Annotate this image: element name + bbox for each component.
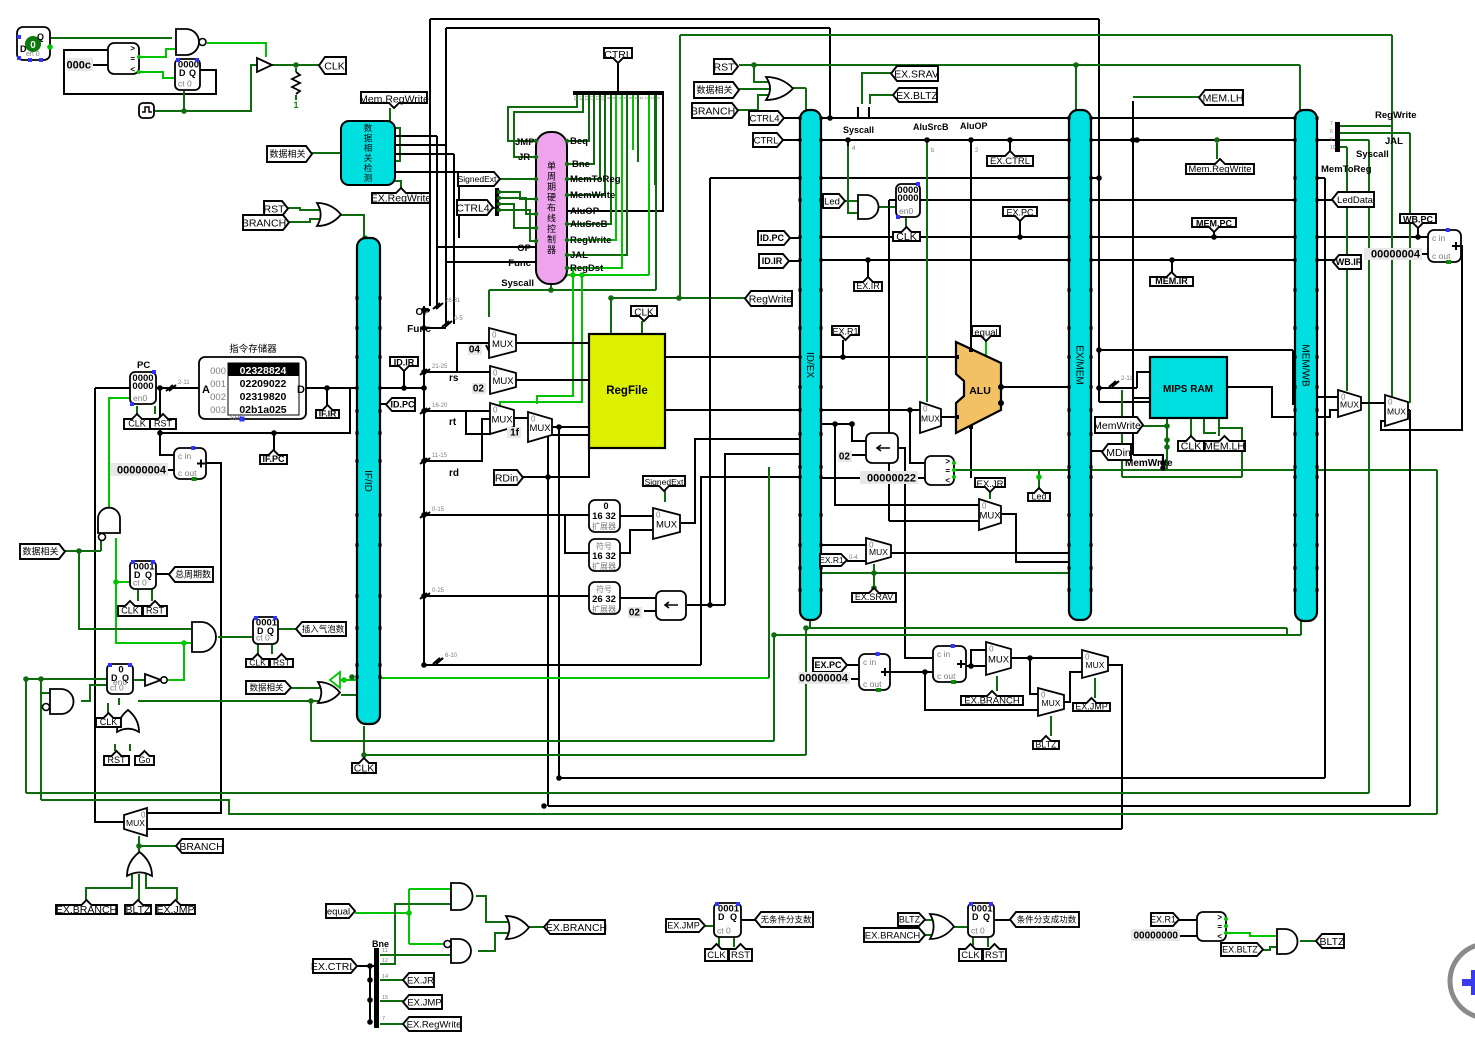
svg-text:c out: c out <box>178 468 197 478</box>
svg-text:RST: RST <box>273 658 290 668</box>
svg-text:相: 相 <box>364 143 373 153</box>
svg-text:CLK: CLK <box>100 717 118 727</box>
svg-text:MUX: MUX <box>492 376 514 387</box>
svg-text:14: 14 <box>382 974 388 980</box>
svg-text:Bne: Bne <box>372 939 389 949</box>
svg-text:WB.IR: WB.IR <box>1336 257 1363 267</box>
svg-text:13: 13 <box>584 95 589 101</box>
svg-text:6: 6 <box>1330 129 1333 135</box>
svg-text:0: 0 <box>989 645 994 654</box>
svg-text:Bne: Bne <box>572 159 590 170</box>
svg-text:ID.PC: ID.PC <box>760 233 785 243</box>
svg-text:MEM.LH: MEM.LH <box>1204 440 1245 452</box>
svg-text:ID.IR: ID.IR <box>762 256 783 266</box>
svg-text:00000004: 00000004 <box>799 673 849 685</box>
svg-text:EX.CTRL: EX.CTRL <box>990 156 1030 167</box>
svg-text:001: 001 <box>210 379 226 390</box>
svg-text:A: A <box>202 384 210 396</box>
svg-text:符号: 符号 <box>596 584 612 594</box>
svg-text:EX.JR: EX.JR <box>977 479 1004 490</box>
svg-text:RegWrite: RegWrite <box>749 293 793 305</box>
svg-text:003: 003 <box>210 405 226 416</box>
svg-text:RST: RST <box>985 950 1004 961</box>
svg-text:Mem.RegWrite: Mem.RegWrite <box>1188 164 1251 175</box>
svg-text:IF/ID: IF/ID <box>362 470 373 492</box>
svg-text:无条件分支数: 无条件分支数 <box>760 915 812 925</box>
svg-text:c in: c in <box>937 649 951 659</box>
svg-text:ct 0: ct 0 <box>178 79 192 89</box>
svg-text:CLK: CLK <box>121 606 139 616</box>
svg-text:02328824: 02328824 <box>240 365 287 377</box>
svg-text:ID/EX: ID/EX <box>804 352 815 378</box>
svg-text:MUX: MUX <box>1086 660 1105 670</box>
svg-text:硬: 硬 <box>547 193 556 203</box>
svg-text:MDin: MDin <box>1106 447 1131 459</box>
svg-text:EX/MEM: EX/MEM <box>1074 345 1085 384</box>
svg-text:16 32: 16 32 <box>592 511 616 522</box>
svg-text:EX.BRANCH: EX.BRANCH <box>56 904 117 916</box>
svg-text:002: 002 <box>210 392 226 403</box>
svg-text:2-11: 2-11 <box>1121 376 1133 382</box>
svg-text:Func: Func <box>407 324 431 335</box>
svg-text:CLK: CLK <box>707 950 726 961</box>
svg-text:Mem.RegWrite: Mem.RegWrite <box>359 93 429 105</box>
svg-text:JAL: JAL <box>1385 136 1403 147</box>
svg-text:D: D <box>718 912 725 922</box>
svg-text:11: 11 <box>595 96 600 101</box>
svg-text:EX.IR: EX.IR <box>856 281 880 291</box>
svg-text:CLK: CLK <box>128 419 146 429</box>
svg-text:7: 7 <box>382 1016 385 1022</box>
svg-text:CLK: CLK <box>354 762 374 774</box>
svg-text:02: 02 <box>473 384 485 395</box>
svg-text:Syscall: Syscall <box>1356 149 1389 160</box>
svg-text:插入气泡数: 插入气泡数 <box>302 624 345 634</box>
svg-text:MemToReg: MemToReg <box>570 174 621 185</box>
svg-text:EX.JR: EX.JR <box>407 975 434 986</box>
svg-text:26-31: 26-31 <box>445 298 461 304</box>
svg-text:扩展器: 扩展器 <box>592 521 616 531</box>
svg-text:D: D <box>972 912 979 922</box>
svg-text:EX.SRAV: EX.SRAV <box>855 592 893 602</box>
svg-text:02209022: 02209022 <box>240 378 287 390</box>
svg-text:数据相关: 数据相关 <box>269 148 305 159</box>
svg-text:RegDst: RegDst <box>570 263 604 274</box>
svg-text:MUX: MUX <box>988 655 1010 666</box>
svg-text:Q: Q <box>730 912 737 922</box>
svg-text:MemWrite: MemWrite <box>570 190 615 201</box>
svg-text:c in: c in <box>178 451 192 461</box>
svg-text:6-10: 6-10 <box>445 653 458 659</box>
svg-text:=: = <box>945 467 950 476</box>
svg-text:00000004: 00000004 <box>117 465 167 477</box>
svg-text:CLK: CLK <box>961 950 980 961</box>
svg-text:BRANCH: BRANCH <box>242 217 286 229</box>
svg-text:MUX: MUX <box>492 339 514 350</box>
svg-text:数据相关: 数据相关 <box>249 683 284 693</box>
svg-text:15: 15 <box>573 95 578 101</box>
svg-text:ID.IR: ID.IR <box>394 358 415 368</box>
svg-text:RDin: RDin <box>495 472 518 484</box>
svg-text:MEM.IR: MEM.IR <box>1155 276 1188 286</box>
svg-text:11-15: 11-15 <box>432 453 448 459</box>
svg-text:IF.PC: IF.PC <box>262 454 285 464</box>
svg-text:=: = <box>130 55 135 64</box>
svg-text:Beq: Beq <box>570 136 588 147</box>
svg-text:BRANCH: BRANCH <box>691 105 735 117</box>
svg-text:12: 12 <box>590 95 595 101</box>
svg-text:1: 1 <box>293 100 298 110</box>
svg-text:26 32: 26 32 <box>592 594 616 605</box>
svg-text:EX.BRANCH: EX.BRANCH <box>865 930 921 941</box>
svg-text:=: = <box>1217 923 1222 932</box>
svg-text:en0: en0 <box>899 206 913 216</box>
svg-text:MEM.PC: MEM.PC <box>1196 219 1233 229</box>
svg-text:0: 0 <box>982 502 987 511</box>
svg-text:MUX: MUX <box>1340 400 1359 410</box>
svg-text:EX.PC: EX.PC <box>1006 208 1034 218</box>
svg-text:equal: equal <box>974 327 997 338</box>
svg-text:MUX: MUX <box>1387 407 1406 417</box>
svg-text:CTRL4: CTRL4 <box>456 202 489 214</box>
svg-text:布: 布 <box>547 202 556 213</box>
svg-text:JAL: JAL <box>570 250 588 261</box>
svg-text:据: 据 <box>364 133 373 143</box>
svg-text:<: < <box>130 65 135 74</box>
svg-text:Q: Q <box>189 68 196 78</box>
svg-text:OP: OP <box>517 243 531 254</box>
svg-text:EX.RegWrite: EX.RegWrite <box>371 192 432 204</box>
svg-text:D: D <box>179 68 186 78</box>
svg-text:EX.R1: EX.R1 <box>832 327 858 337</box>
svg-text:>: > <box>130 44 135 53</box>
svg-text:IF.IR: IF.IR <box>319 409 336 419</box>
svg-text:12: 12 <box>382 958 388 964</box>
svg-text:<: < <box>1217 932 1222 941</box>
svg-text:EX.SRAV: EX.SRAV <box>894 68 939 80</box>
svg-text:0000: 0000 <box>132 381 153 392</box>
svg-text:16-20: 16-20 <box>432 403 448 409</box>
svg-text:CLK: CLK <box>896 231 916 243</box>
svg-text:Led: Led <box>824 196 840 207</box>
svg-text:CLK: CLK <box>1181 440 1201 452</box>
svg-text:JR: JR <box>518 152 530 163</box>
svg-text:EX.JMP: EX.JMP <box>1075 702 1108 712</box>
svg-text:AluOP: AluOP <box>570 206 600 217</box>
svg-text:0-15: 0-15 <box>432 507 445 513</box>
svg-text:000c: 000c <box>67 60 91 72</box>
svg-text:>: > <box>1217 913 1222 922</box>
svg-text:2-11: 2-11 <box>178 380 190 386</box>
svg-text:en0: en0 <box>133 393 147 403</box>
svg-text:关: 关 <box>364 153 373 163</box>
svg-text:指令存储器: 指令存储器 <box>229 343 277 355</box>
svg-text:0: 0 <box>30 40 36 51</box>
svg-text:EX.BLTZ: EX.BLTZ <box>896 90 938 102</box>
svg-text:0: 0 <box>493 406 498 415</box>
svg-text:数: 数 <box>364 123 373 133</box>
svg-text:EX.BRANCH: EX.BRANCH <box>546 922 607 934</box>
svg-text:00000000: 00000000 <box>1134 931 1179 942</box>
svg-text:7: 7 <box>1330 121 1333 127</box>
svg-text:EX.CTRL: EX.CTRL <box>311 961 356 973</box>
svg-text:JMP: JMP <box>515 137 535 148</box>
svg-text:EX.R1: EX.R1 <box>1150 915 1176 925</box>
svg-text:SignedExt: SignedExt <box>645 477 684 487</box>
svg-text:c in: c in <box>1432 233 1446 243</box>
svg-text:BLTZ: BLTZ <box>1035 740 1057 750</box>
svg-text:数据相关: 数据相关 <box>696 84 732 95</box>
svg-text:周: 周 <box>547 172 556 182</box>
svg-text:02319820: 02319820 <box>240 391 287 403</box>
svg-text:02b1a025: 02b1a025 <box>239 404 286 416</box>
svg-text:AluOP: AluOP <box>960 121 988 131</box>
svg-text:Led: Led <box>1031 492 1046 502</box>
svg-text:期: 期 <box>547 182 556 192</box>
svg-text:0000: 0000 <box>897 193 918 204</box>
svg-text:BLTZ: BLTZ <box>1320 936 1345 948</box>
svg-text:c in: c in <box>863 657 877 667</box>
svg-text:c out: c out <box>937 671 956 681</box>
svg-text:CLK: CLK <box>249 658 266 668</box>
svg-text:制: 制 <box>547 234 556 245</box>
svg-text:0-5: 0-5 <box>454 316 463 322</box>
svg-text:>: > <box>945 457 950 466</box>
svg-text:MUX: MUX <box>979 511 1001 522</box>
svg-text:EX.PC: EX.PC <box>814 660 842 670</box>
svg-text:CTRL4: CTRL4 <box>749 113 779 124</box>
svg-text:RegWrite: RegWrite <box>570 235 612 246</box>
svg-text:rt: rt <box>449 417 457 428</box>
svg-text:EX.R1: EX.R1 <box>819 555 844 565</box>
svg-text:ALU: ALU <box>969 385 991 397</box>
svg-text:0-4: 0-4 <box>849 555 858 561</box>
svg-text:ct 0: ct 0 <box>133 578 147 588</box>
svg-text:总周期数: 总周期数 <box>175 569 211 580</box>
svg-text:LedData: LedData <box>1337 195 1374 206</box>
svg-text:BRANCH: BRANCH <box>179 841 223 853</box>
svg-text:控: 控 <box>547 223 556 234</box>
svg-text:MUX: MUX <box>126 818 145 828</box>
svg-text:MUX: MUX <box>921 414 940 424</box>
svg-text:BLTZ: BLTZ <box>126 904 151 916</box>
svg-text:SignedExt: SignedExt <box>458 174 497 184</box>
svg-text:MemWrite: MemWrite <box>1125 458 1173 469</box>
svg-text:EX.JMP: EX.JMP <box>157 904 195 916</box>
svg-text:EX.JMP: EX.JMP <box>407 997 441 1008</box>
svg-text:D: D <box>297 384 305 396</box>
svg-text:MEM.LH: MEM.LH <box>1203 92 1244 104</box>
svg-text:21-25: 21-25 <box>432 364 448 370</box>
svg-text:RST: RST <box>264 203 286 215</box>
svg-text:MemWrite: MemWrite <box>1093 420 1141 432</box>
svg-text:MemToReg: MemToReg <box>1321 164 1372 175</box>
svg-text:Syscall: Syscall <box>843 125 874 135</box>
svg-text:10: 10 <box>1330 145 1336 151</box>
svg-text:OP: OP <box>416 307 431 318</box>
svg-text:000: 000 <box>210 366 226 377</box>
svg-text:EX.RegWrite: EX.RegWrite <box>407 1019 462 1030</box>
svg-text:扩展器: 扩展器 <box>592 561 616 571</box>
svg-text:c out: c out <box>1432 251 1451 261</box>
svg-text:器: 器 <box>547 245 556 255</box>
svg-text:10: 10 <box>601 95 606 101</box>
svg-text:MEM/WB: MEM/WB <box>1300 344 1311 387</box>
svg-text:WB.PC: WB.PC <box>1403 215 1433 225</box>
svg-text:MUX: MUX <box>869 547 888 557</box>
svg-text:EX.BRANCH: EX.BRANCH <box>964 695 1020 706</box>
svg-text:0: 0 <box>923 405 928 414</box>
svg-text:RegWrite: RegWrite <box>1375 110 1417 121</box>
svg-text:Go: Go <box>138 755 150 765</box>
svg-text:AluSrcB: AluSrcB <box>913 122 949 132</box>
svg-text:RST: RST <box>154 419 173 429</box>
svg-text:BLTZ: BLTZ <box>899 915 921 925</box>
svg-text:数据相关: 数据相关 <box>22 546 58 557</box>
svg-text:RST: RST <box>108 755 127 765</box>
svg-text:ct 0: ct 0 <box>256 633 270 643</box>
svg-text:EX.BLTZ: EX.BLTZ <box>1222 945 1258 955</box>
svg-text:Q: Q <box>983 912 990 922</box>
svg-text:EX.JMP: EX.JMP <box>667 921 700 931</box>
svg-text:14: 14 <box>579 95 584 101</box>
svg-text:PC: PC <box>137 360 150 371</box>
svg-text:0-25: 0-25 <box>432 588 445 594</box>
svg-text:测: 测 <box>364 173 373 183</box>
svg-text:16 32: 16 32 <box>592 551 616 562</box>
svg-text:MIPS RAM: MIPS RAM <box>1163 384 1213 395</box>
svg-text:en 0: en 0 <box>26 51 40 58</box>
svg-text:Q: Q <box>37 32 44 42</box>
svg-text:Syscall: Syscall <box>501 278 534 289</box>
svg-text:CTRL: CTRL <box>604 49 632 61</box>
svg-text:ID.PC: ID.PC <box>390 400 415 410</box>
svg-text:1f: 1f <box>510 428 520 439</box>
svg-text:RST: RST <box>731 950 750 961</box>
svg-text:RST: RST <box>714 61 736 73</box>
svg-text:en0: en0 <box>113 677 127 687</box>
svg-text:<: < <box>945 476 950 485</box>
svg-text:equal: equal <box>327 906 350 917</box>
svg-text:CLK: CLK <box>324 60 344 72</box>
svg-text:MUX: MUX <box>656 520 678 531</box>
svg-text:Func: Func <box>508 258 531 269</box>
svg-text:02: 02 <box>629 608 641 619</box>
svg-text:00000022: 00000022 <box>867 473 916 485</box>
svg-text:02: 02 <box>839 452 851 463</box>
svg-text:MUX: MUX <box>529 423 551 434</box>
svg-text:04: 04 <box>469 345 481 356</box>
svg-text:0: 0 <box>656 511 661 520</box>
svg-text:00000004: 00000004 <box>1371 249 1421 261</box>
svg-text:ct 0: ct 0 <box>717 926 731 936</box>
svg-text:单: 单 <box>547 160 556 171</box>
svg-text:符号: 符号 <box>596 541 612 551</box>
svg-text:0: 0 <box>603 501 608 511</box>
svg-text:0: 0 <box>1388 398 1393 407</box>
svg-text:rs: rs <box>449 373 459 384</box>
svg-text:rd: rd <box>449 468 459 479</box>
svg-text:9: 9 <box>1330 137 1333 143</box>
svg-text:条件分支成功数: 条件分支成功数 <box>1017 915 1077 925</box>
svg-text:ct 0: ct 0 <box>971 926 985 936</box>
svg-text:MUX: MUX <box>1042 698 1061 708</box>
svg-text:15: 15 <box>382 995 388 1001</box>
svg-text:MUX: MUX <box>491 415 513 426</box>
svg-text:RST: RST <box>146 606 165 616</box>
svg-text:线: 线 <box>547 213 556 224</box>
svg-text:c out: c out <box>863 679 882 689</box>
svg-text:检: 检 <box>364 163 373 173</box>
svg-text:扩展器: 扩展器 <box>592 604 616 614</box>
svg-text:CTRL: CTRL <box>754 135 779 146</box>
svg-text:RegFile: RegFile <box>606 385 648 397</box>
svg-text:CLK: CLK <box>634 308 654 319</box>
svg-text:AluSrcB: AluSrcB <box>570 219 608 230</box>
